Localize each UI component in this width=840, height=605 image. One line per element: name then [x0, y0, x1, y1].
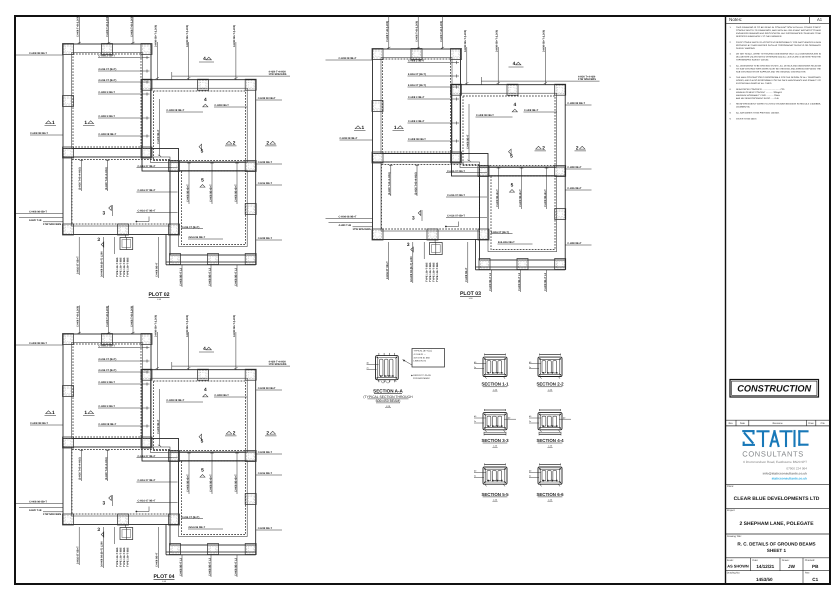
svg-text:2-H16 0T (B+T): 2-H16 0T (B+T) — [408, 84, 426, 87]
svg-text:C-H08 08 0B+T: C-H08 08 0B+T — [258, 97, 276, 100]
svg-text:2-H16 0T 0B+T: 2-H16 0T 0B+T — [77, 256, 80, 274]
svg-text:PB: PB — [812, 564, 819, 569]
svg-text:2x5-H16 0B+T: 2x5-H16 0B+T — [188, 526, 205, 529]
svg-text:C-H08 0B+T: C-H08 0B+T — [258, 527, 273, 530]
svg-text:2-H16 0T (B+T): 2-H16 0T (B+T) — [98, 369, 116, 372]
svg-text:MILLIMETERS UNLESS NOTED OTHER: MILLIMETERS UNLESS NOTED OTHERWISE AND A… — [736, 56, 822, 59]
svg-text:3-H08 0B+T (L200): 3-H08 0B+T (L200) — [186, 315, 189, 337]
svg-text:34-H08 08 (B+T) L200: 34-H08 08 (B+T) L200 — [410, 256, 413, 282]
svg-text:2-H16 0T (B+T): 2-H16 0T (B+T) — [491, 231, 509, 234]
svg-text:C-H08 T+B (L200): C-H08 T+B (L200) — [440, 21, 443, 42]
svg-text:C-H08 0B+T: C-H08 0B+T — [157, 419, 160, 434]
svg-text:3-H08 0B+T (L200): 3-H08 0B+T (L200) — [186, 25, 189, 47]
svg-text:C-H08 0B+T: C-H08 0B+T — [466, 134, 469, 149]
svg-text:4-H20 T+B: 4-H20 T+B — [339, 224, 352, 227]
svg-text:3-H08 0B+T (L200): 3-H08 0B+T (L200) — [233, 25, 236, 47]
svg-text:staticconsultants.co.uk: staticconsultants.co.uk — [772, 477, 808, 481]
svg-text:1TW SPACERS: 1TW SPACERS — [43, 223, 62, 226]
svg-text:SECTION 3-3: SECTION 3-3 — [481, 438, 509, 443]
svg-text:SHEET 1: SHEET 1 — [767, 548, 787, 553]
svg-text:STATIC CONSULTANTS LTD ACCEPTS: STATIC CONSULTANTS LTD ACCEPTS NO RESPON… — [736, 41, 822, 44]
svg-text:C-H16 07 0B+T: C-H16 07 0B+T — [138, 165, 156, 168]
svg-text:2-H16 0T (B+T): 2-H16 0T (B+T) — [98, 68, 116, 71]
svg-text:DO NOT SCALE, WORK TO FIGURED: DO NOT SCALE, WORK TO FIGURED DIMENSIONS… — [736, 53, 822, 56]
svg-text:REINFORCED CONCRETE .........: REINFORCED CONCRETE ....................… — [736, 88, 785, 91]
svg-text:C-H08 08 0B+T: C-H08 08 0B+T — [408, 138, 426, 141]
svg-text:JW: JW — [788, 564, 796, 569]
svg-text:C-H08 08 0B+T: C-H08 08 0B+T — [29, 211, 47, 214]
svg-text:4-H20 T+B: 4-H20 T+B — [29, 219, 42, 222]
svg-text:WORKS, AND IS ALSO RESPONSIBLE: WORKS, AND IS ALSO RESPONSIBLE FOR THE S… — [736, 79, 822, 82]
svg-text:C-H16 0B+T: C-H16 0B+T — [567, 187, 582, 190]
svg-text:Revisions: Revisions — [773, 422, 784, 425]
svg-text:C-H08 08 0B+T: C-H08 08 0B+T — [340, 137, 358, 140]
svg-text:2 SHEPHAM LANE, POLEGATE: 2 SHEPHAM LANE, POLEGATE — [739, 521, 814, 527]
svg-text:(2-H20 T+B+4-H16): (2-H20 T+B+4-H16) — [105, 457, 108, 480]
svg-text:C-H08 08 0B+T: C-H08 08 0B+T — [567, 102, 585, 105]
svg-text:C-H08 0B+B+T: C-H08 0B+B+T — [544, 189, 547, 207]
svg-text:3: 3 — [412, 216, 415, 222]
svg-text:C-H08 08 0B+T: C-H08 08 0B+T — [29, 52, 47, 55]
svg-text:C-H08 08 0B+T: C-H08 08 0B+T — [166, 109, 184, 112]
svg-text:Rev:: Rev: — [805, 572, 810, 575]
svg-text:C-H08 0B+T: C-H08 0B+T — [156, 262, 159, 277]
svg-text:4: 4 — [204, 387, 207, 393]
svg-text:5: 5 — [511, 183, 514, 189]
svg-text:EXISTING BUILDINGS AT ALL TIME: EXISTING BUILDINGS AT ALL TIMES. — [736, 82, 772, 85]
svg-text:Checked:: Checked: — [805, 559, 815, 562]
svg-text:C-H08 0B+B+T: C-H08 0B+B+T — [234, 184, 237, 202]
svg-text:2x5-H16 0B+T: 2x5-H16 0B+T — [498, 241, 515, 244]
svg-text:info@staticconsultants.co.uk: info@staticconsultants.co.uk — [763, 472, 808, 476]
svg-text:Drawing No:: Drawing No: — [727, 572, 740, 575]
svg-text:Client:: Client: — [727, 485, 734, 488]
svg-text:SECTION 5-5: SECTION 5-5 — [481, 492, 509, 497]
svg-text:C-H08 0B+T: C-H08 0B+T — [214, 104, 229, 107]
svg-text:C-H08 08 0B+T: C-H08 08 0B+T — [30, 132, 48, 135]
svg-text:C-H08 0B+T: C-H08 0B+T — [567, 166, 582, 169]
svg-text:2-H16 0T (B+T): 2-H16 0T (B+T) — [98, 79, 116, 82]
svg-text:(2-H20 T+B+4-H16): (2-H20 T+B+4-H16) — [79, 167, 82, 190]
svg-text:C-H08 0B+T: C-H08 0B+T — [258, 451, 273, 454]
svg-text:C-H08 3 0B+T: C-H08 3 0B+T — [408, 96, 425, 99]
svg-text:2x5-H16 0B+T: 2x5-H16 0B+T — [188, 236, 205, 239]
svg-text:Date: Date — [740, 422, 746, 425]
svg-text:ALL BAR MARKS TO BE PREFIXED 1: ALL BAR MARKS TO BE PREFIXED 1453/50/. — [736, 111, 780, 114]
svg-text:(2-H20 T+B+4-H16): (2-H20 T+B+4-H16) — [414, 172, 417, 195]
svg-text:C-H08 08 0B+T: C-H08 08 0B+T — [29, 501, 47, 504]
svg-text:ALL DIMENSIONS TO BE CHECKED O: ALL DIMENSIONS TO BE CHECKED ON SITE. AL… — [736, 64, 821, 67]
svg-text:2x: 2x — [529, 366, 531, 369]
svg-text:SECTION 4-4: SECTION 4-4 — [536, 438, 564, 443]
svg-text:A1: A1 — [817, 17, 823, 22]
svg-text:2x: 2x — [474, 366, 476, 369]
svg-text:C-H08 0B+T: C-H08 0B+T — [258, 161, 273, 164]
svg-text:C-H08 T+B (L200): C-H08 T+B (L200) — [77, 16, 80, 37]
svg-text:C-H08 3 0B+T: C-H08 3 0B+T — [408, 120, 425, 123]
svg-text:1453/BBS2-05.: 1453/BBS2-05. — [736, 106, 751, 109]
svg-text:◆ REFER TO PLAN: ◆ REFER TO PLAN — [411, 374, 431, 377]
svg-text:3: 3 — [407, 242, 410, 248]
svg-text:2-H16 0T (B+T): 2-H16 0T (B+T) — [408, 73, 426, 76]
svg-text:5: 5 — [201, 439, 204, 445]
svg-text:CONSULTANTS: CONSULTANTS — [742, 450, 804, 459]
svg-text:C-H08 3 0B+T: C-H08 3 0B+T — [98, 405, 115, 408]
svg-text:SECTION 6-6: SECTION 6-6 — [536, 492, 564, 497]
svg-text:3-H08 0B+T (L200): 3-H08 0B+T (L200) — [543, 30, 546, 52]
svg-text:2-H16 0T (B+T): 2-H16 0T (B+T) — [181, 226, 199, 229]
svg-text:C-H08 08 0B+T: C-H08 08 0B+T — [98, 133, 116, 136]
svg-text:C-H08 0B+T: C-H08 0B+T — [258, 237, 273, 240]
svg-text:C-H08 0B+B+T: C-H08 0B+B+T — [186, 184, 189, 202]
svg-text:C-H16 07 0B+T: C-H16 07 0B+T — [138, 479, 156, 482]
svg-text:3-H08 0B+T (L200): 3-H08 0B+T (L200) — [155, 25, 158, 47]
svg-text:C-H08 T+B (L200): C-H08 T+B (L200) — [416, 21, 419, 42]
svg-text:1: 1 — [394, 125, 397, 131]
svg-text:THIS DRAWING IS TO BE READ IN: THIS DRAWING IS TO BE READ IN CONJUNCTIO… — [736, 26, 822, 29]
svg-text:FOR BAR MARK: FOR BAR MARK — [413, 377, 430, 380]
svg-text:CONSTRUCTION: CONSTRUCTION — [737, 384, 811, 394]
svg-text:TYPICAL (B+T) (L): TYPICAL (B+T) (L) — [414, 350, 433, 353]
svg-text:REPORTED IMMEDIATELY TO THE EN: REPORTED IMMEDIATELY TO THE ENGINEER. — [736, 35, 782, 38]
svg-text:1453/50: 1453/50 — [756, 577, 773, 582]
svg-text:1: 1 — [52, 120, 55, 126]
svg-text:2: 2 — [233, 430, 236, 436]
svg-text:Date:: Date: — [753, 559, 759, 562]
svg-text:C-H08 0B+T: C-H08 0B+T — [524, 109, 539, 112]
svg-text:C-H08 08 0B+T: C-H08 08 0B+T — [30, 422, 48, 425]
svg-text:C-H08 0B+T: C-H08 0B+T — [465, 267, 468, 282]
svg-text:C-H16 07 0B+T: C-H16 07 0B+T — [447, 194, 465, 197]
svg-text:14/12/21: 14/12/21 — [756, 564, 774, 569]
svg-text:2-H16 0T (B+T): 2-H16 0T (B+T) — [181, 516, 199, 519]
svg-text:C-H08 0B+T L2: C-H08 0B+T L2 — [489, 272, 492, 291]
svg-text:CLEAR BLUE DEVELOPMENTS LTD: CLEAR BLUE DEVELOPMENTS LTD — [734, 496, 820, 502]
svg-text:Scale:: Scale: — [727, 559, 734, 562]
svg-text:1TW SPACERS: 1TW SPACERS — [353, 228, 372, 231]
svg-text:C-H08 0B+T L2: C-H08 0B+T L2 — [208, 557, 211, 576]
svg-text:1: 1 — [52, 410, 55, 416]
svg-text:3-H08 0B+T (L200): 3-H08 0B+T (L200) — [155, 315, 158, 337]
svg-text:Drwn: Drwn — [808, 422, 814, 425]
svg-text:3x7 0 H8 01 050: 3x7 0 H8 01 050 — [414, 356, 431, 359]
svg-text:4: 4 — [203, 346, 206, 352]
svg-text:2-H16 0T 0B+T: 2-H16 0T 0B+T — [77, 546, 80, 564]
svg-text:C1: C1 — [812, 577, 818, 582]
svg-text:C-H08 0B+T L2: C-H08 0B+T L2 — [208, 267, 211, 286]
svg-text:C-H08 0B+B+T: C-H08 0B+B+T — [209, 184, 212, 202]
svg-text:C-H08 T+B (L200): C-H08 T+B (L200) — [106, 306, 109, 327]
svg-text:TO SUB-CONTRACTORS WORK MUST B: TO SUB-CONTRACTORS WORK MUST BE CHECKED … — [736, 67, 822, 70]
svg-text:C-H08 0B+T L2: C-H08 0B+T L2 — [179, 557, 182, 576]
svg-text:C-H08 08 0B+T: C-H08 08 0B+T — [258, 387, 276, 390]
svg-text:5: 5 — [201, 178, 204, 184]
svg-text:C-H08 T+B (L200): C-H08 T+B (L200) — [130, 306, 133, 327]
svg-text:C-H08 0B+T L2: C-H08 0B+T L2 — [518, 272, 521, 291]
svg-text:1TW SPACERS: 1TW SPACERS — [578, 78, 596, 81]
svg-text:2: 2 — [266, 430, 269, 436]
svg-text:C-H08 0B+T L2: C-H08 0B+T L2 — [179, 267, 182, 286]
svg-text:TOPOGRAPHIC SURVEY DATUM.: TOPOGRAPHIC SURVEY DATUM. — [736, 59, 769, 62]
svg-text:2: 2 — [576, 145, 579, 151]
svg-text:C-H08 T+B (L200): C-H08 T+B (L200) — [106, 16, 109, 37]
svg-text:ENGINEERS DRAWINGS AND SPECIFI: ENGINEERS DRAWINGS AND SPECIFICATION. AN… — [736, 32, 822, 35]
svg-text:(2-H20 T+B+4-H16): (2-H20 T+B+4-H16) — [105, 167, 108, 190]
svg-text:1: 1 — [84, 410, 87, 416]
svg-text:C-H08 08 0B+T: C-H08 08 0B+T — [29, 342, 47, 345]
svg-text:C-H08 0B+B+T: C-H08 0B+B+T — [209, 474, 212, 492]
svg-text:4: 4 — [513, 102, 516, 108]
svg-text:MINIMUM CEMENT CONTENT .......: MINIMUM CEMENT CONTENT ............ 325k… — [736, 91, 782, 94]
svg-text:C-H08 T+B (L200): C-H08 T+B (L200) — [77, 306, 80, 327]
svg-text:SECTION 2-2: SECTION 2-2 — [536, 382, 564, 387]
svg-text:2: 2 — [266, 140, 269, 146]
svg-text:34-H08 08 (B+T) L200: 34-H08 08 (B+T) L200 — [101, 251, 104, 277]
svg-text:C-H16 07 0B+T: C-H16 07 0B+T — [138, 455, 156, 458]
svg-text:PROVIDED BY THIRD PARTIES SUCH: PROVIDED BY THIRD PARTIES SUCH AS TOPOGR… — [736, 44, 822, 47]
svg-text:C-H08 0B+T: C-H08 0B+T — [214, 394, 229, 397]
svg-text:AS SHOWN: AS SHOWN — [727, 564, 749, 569]
svg-text:3: 3 — [103, 211, 106, 217]
svg-text:Notes:: Notes: — [729, 17, 742, 22]
svg-text:3: 3 — [97, 237, 100, 243]
svg-text:COVER TO BE 50mm: COVER TO BE 50mm — [736, 117, 757, 120]
svg-text:1: 1 — [362, 125, 365, 131]
svg-text:BAR MIX REINFORCEMENT RATIO ..: BAR MIX REINFORCEMENT RATIO ...... 0.45 — [736, 97, 779, 100]
svg-text:2: 2 — [542, 145, 545, 151]
svg-text:2-H16 0T (B+T): 2-H16 0T (B+T) — [98, 358, 116, 361]
svg-text:3: 3 — [103, 501, 106, 507]
svg-text:REINFORCEMENT WORK IS LISTED O: REINFORCEMENT WORK IS LISTED ON BAR BEND… — [736, 103, 821, 106]
svg-text:C-H08 2 0B+T: C-H08 2 0B+T — [98, 55, 115, 58]
svg-text:C-H08 0B+T L2: C-H08 0B+T L2 — [234, 267, 237, 286]
svg-text:4-2-H8 01 ---: 4-2-H8 01 --- — [414, 353, 427, 356]
svg-text:THE MAIN CONTRACTOR IS RESPONS: THE MAIN CONTRACTOR IS RESPONSIBLE FOR T… — [736, 76, 822, 79]
svg-text:600x450 BEAM): 600x450 BEAM) — [376, 399, 401, 403]
svg-text:C-H08 08 0B+T: C-H08 08 0B+T — [98, 423, 116, 426]
svg-text:C-H08 0B+T: C-H08 0B+T — [156, 552, 159, 567]
svg-text:SUB-CONTRACTOR OR SUPPLIER AND: SUB-CONTRACTOR OR SUPPLIER AND THE GENER… — [736, 70, 806, 73]
svg-text:C-H08 T+B (L200): C-H08 T+B (L200) — [386, 21, 389, 42]
svg-text:C-H16 07 0B+T: C-H16 07 0B+T — [447, 170, 465, 173]
svg-text:C-H08 3 0B+T: C-H08 3 0B+T — [98, 115, 115, 118]
svg-text:C-H16 0B+T: C-H16 0B+T — [258, 472, 273, 475]
svg-text:SURVEY MAPPING.: SURVEY MAPPING. — [736, 47, 756, 50]
svg-text:C-H08 T+B (L200): C-H08 T+B (L200) — [130, 16, 133, 37]
svg-text:C-H08 0B+B+T: C-H08 0B+B+T — [496, 189, 499, 207]
svg-text:SECTION A-A: SECTION A-A — [373, 389, 403, 394]
svg-text:6 Drummondson Road, Eastbourne: 6 Drummondson Road, Eastbourne BN20 9PT — [743, 460, 807, 464]
svg-text:C-H08 0B+B+T: C-H08 0B+B+T — [519, 189, 522, 207]
svg-text:Drawing Title:: Drawing Title: — [727, 535, 742, 538]
svg-text:2: 2 — [233, 140, 236, 146]
svg-text:2x: 2x — [474, 475, 476, 478]
svg-text:(2-H20 T+B+4-H16): (2-H20 T+B+4-H16) — [388, 172, 391, 195]
svg-text:C-H08 0B+B+T: C-H08 0B+B+T — [186, 474, 189, 492]
svg-text:3-H08 0B+T (L200): 3-H08 0B+T (L200) — [496, 30, 499, 52]
svg-text:C-H08 3 0B+T: C-H08 3 0B+T — [98, 381, 115, 384]
svg-text:4: 4 — [203, 56, 206, 62]
svg-text:C-H16 07 0B+T: C-H16 07 0B+T — [138, 500, 156, 503]
svg-text:2x: 2x — [529, 420, 531, 423]
svg-text:4: 4 — [513, 61, 516, 67]
svg-text:2x: 2x — [529, 475, 531, 478]
svg-text:1TW SPACERS: 1TW SPACERS — [43, 513, 62, 516]
svg-text:07900 224 064: 07900 224 064 — [786, 466, 807, 470]
svg-text:5: 5 — [510, 154, 513, 160]
svg-text:MAXIMUM WORKABILITY SIZE .....: MAXIMUM WORKABILITY SIZE ............ 20… — [736, 94, 780, 97]
svg-text:1TW SPACERS: 1TW SPACERS — [269, 363, 287, 366]
svg-text:TYPE 1 B+T 0B5: TYPE 1 B+T 0B5 — [127, 547, 130, 567]
svg-text:3-H08 0B+T (L200): 3-H08 0B+T (L200) — [464, 30, 467, 52]
svg-text:2x: 2x — [367, 367, 369, 370]
svg-text:5: 5 — [201, 468, 204, 474]
svg-text:CONSULTANTS LTD DRAWINGS, AND: CONSULTANTS LTD DRAWINGS, AND WITH ALL R… — [736, 29, 822, 32]
svg-text:3-H08 0B+T (L200): 3-H08 0B+T (L200) — [233, 315, 236, 337]
svg-text:1TW SPACERS: 1TW SPACERS — [269, 73, 287, 76]
svg-text:C-H08 08 0B+T: C-H08 08 0B+T — [339, 57, 357, 60]
svg-text:C-H08 2 0B+T: C-H08 2 0B+T — [408, 60, 425, 63]
svg-text:C-H16 07 0B+T: C-H16 07 0B+T — [138, 210, 156, 213]
svg-text:C-H08 3 0B+T: C-H08 3 0B+T — [98, 91, 115, 94]
svg-text:R. C. DETAILS OF GROUND BEAMS: R. C. DETAILS OF GROUND BEAMS — [737, 542, 815, 547]
svg-text:C-H08 0B+T: C-H08 0B+T — [157, 129, 160, 144]
svg-text:(2-H20 T+B+4-H16): (2-H20 T+B+4-H16) — [79, 457, 82, 480]
svg-text:2-H16 0T 0B+T: 2-H16 0T 0B+T — [386, 261, 389, 279]
svg-text:5: 5 — [201, 149, 204, 155]
svg-text:C-H16 0B+T: C-H16 0B+T — [258, 182, 273, 185]
svg-text:C-H08 08 0B+T: C-H08 08 0B+T — [476, 114, 494, 117]
svg-text:C-H08 0B+T L2: C-H08 0B+T L2 — [234, 557, 237, 576]
svg-text:C-H08 08 0B+T: C-H08 08 0B+T — [339, 216, 357, 219]
svg-text:C-H08 08 0B+T: C-H08 08 0B+T — [166, 399, 184, 402]
svg-text:C-H16 07 0B+T: C-H16 07 0B+T — [138, 189, 156, 192]
svg-text:4-H20 T+B: 4-H20 T+B — [29, 509, 42, 512]
svg-text:Drawn:: Drawn: — [782, 559, 790, 562]
svg-text:TYPE 1 B+T 0B5: TYPE 1 B+T 0B5 — [436, 262, 439, 282]
svg-text:34-H08 08 (B+T) L200: 34-H08 08 (B+T) L200 — [101, 541, 104, 567]
svg-text:C-H08 0B+T L2: C-H08 0B+T L2 — [544, 272, 547, 291]
svg-text:TYPE 1 B+T 0B5: TYPE 1 B+T 0B5 — [127, 257, 130, 277]
svg-text:SECTION 1-1: SECTION 1-1 — [481, 382, 509, 387]
svg-text:LINKS IN 3's: LINKS IN 3's — [414, 360, 427, 363]
svg-text:Project:: Project: — [727, 509, 735, 512]
svg-text:3: 3 — [97, 527, 100, 533]
svg-text:4: 4 — [204, 97, 207, 103]
svg-text:2x: 2x — [474, 420, 476, 423]
svg-text:1: 1 — [84, 120, 87, 126]
svg-text:C-H08 0B+B+T: C-H08 0B+B+T — [234, 474, 237, 492]
svg-text:C-H16 07 0B+T: C-H16 07 0B+T — [447, 215, 465, 218]
svg-text:C-H08 0B+T: C-H08 0B+T — [567, 242, 582, 245]
svg-text:C-H08 2 0B+T: C-H08 2 0B+T — [98, 345, 115, 348]
